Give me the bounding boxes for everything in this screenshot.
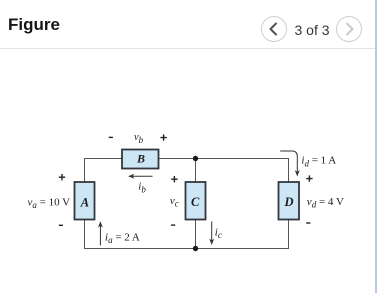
- svg-text:vd = 4 V: vd = 4 V: [307, 196, 344, 210]
- svg-text:ib: ib: [138, 181, 146, 195]
- svg-text:va = 10 V: va = 10 V: [28, 197, 71, 211]
- svg-text:ic: ic: [215, 227, 222, 241]
- svg-text:C: C: [191, 195, 200, 209]
- svg-text:vb: vb: [134, 132, 144, 145]
- svg-text:ia = 2 A: ia = 2 A: [105, 231, 140, 245]
- svg-text:B: B: [136, 152, 145, 166]
- svg-text:D: D: [283, 195, 293, 209]
- svg-text:A: A: [80, 196, 89, 210]
- svg-text:vc: vc: [170, 195, 179, 209]
- svg-text:id = 1 A: id = 1 A: [301, 155, 336, 169]
